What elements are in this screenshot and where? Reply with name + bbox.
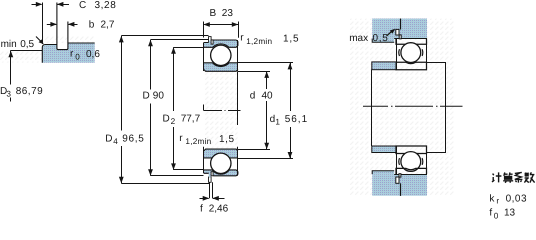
cage marks upper ball <box>399 49 423 56</box>
upper outer ring section (blue) <box>204 40 238 47</box>
detail outer-ring section (blue) <box>42 43 94 63</box>
svg-text:23: 23 <box>222 8 234 19</box>
shaft right section <box>427 63 446 153</box>
svg-text:f: f <box>200 204 203 215</box>
svg-text:C: C <box>79 0 86 11</box>
svg-text:b: b <box>89 20 95 31</box>
lower snap ring groove notch <box>211 172 213 176</box>
lower outer ring (right view) <box>396 168 427 174</box>
svg-text:1,2min: 1,2min <box>246 37 272 46</box>
dim d 40 <box>238 71 273 149</box>
label r 1,2min 1,5 upper <box>240 32 299 45</box>
svg-text:1,2min: 1,2min <box>185 137 211 146</box>
svg-text:1: 1 <box>275 117 280 126</box>
dim d1 56,1 <box>238 63 308 159</box>
lower inner ring (right view) <box>396 146 427 154</box>
svg-text:4: 4 <box>113 137 118 146</box>
detail housing hatch strip <box>42 36 94 44</box>
svg-text:86,79: 86,79 <box>16 86 44 97</box>
svg-text:56,1: 56,1 <box>285 114 308 125</box>
label r0 0,6 <box>70 49 100 62</box>
dim D 90 <box>143 40 209 176</box>
shaft shoulder bar upper <box>372 62 396 70</box>
svg-text:d: d <box>270 114 276 125</box>
dim B 23 <box>203 8 238 38</box>
detail section outline <box>42 43 94 63</box>
cage marks lower ball <box>399 158 423 165</box>
lower inner ring outline <box>204 149 238 158</box>
glyph suan <box>504 172 513 175</box>
svg-text:d: d <box>250 91 256 102</box>
svg-text:1,5: 1,5 <box>283 34 299 45</box>
mounting hatch background <box>350 19 455 196</box>
upper face lines <box>203 43 205 72</box>
housing joint line upper <box>400 19 402 30</box>
svg-text:1,5: 1,5 <box>219 134 235 145</box>
main centerline <box>204 110 241 112</box>
svg-text:40: 40 <box>262 91 274 102</box>
shaft shoulder bar lower <box>372 146 396 153</box>
glyph ji <box>492 174 494 182</box>
svg-text:0,6: 0,6 <box>86 49 100 60</box>
dim D3 86,79 <box>0 51 43 102</box>
svg-text:90: 90 <box>153 90 165 101</box>
svg-text:96,5: 96,5 <box>122 134 144 145</box>
lower outer ring section (blue) <box>204 170 238 176</box>
dim b 2,7 <box>47 20 115 31</box>
shaft hatch between sections <box>204 72 237 150</box>
label min 0,5 with leader <box>1 37 44 51</box>
svg-text:2,7: 2,7 <box>101 20 115 31</box>
calc factors title (hand-drawn CJK strokes) <box>492 172 535 182</box>
lower inner ring section (blue) <box>204 149 238 158</box>
upper ball <box>211 45 231 65</box>
housing top block <box>372 19 427 39</box>
lower ball (right view) <box>401 152 421 172</box>
dim D4 96,5 <box>105 36 209 184</box>
svg-text:77,7: 77,7 <box>181 114 201 125</box>
svg-text:0,5: 0,5 <box>20 39 34 50</box>
upper snap ring slot (right view) <box>396 29 399 35</box>
lower ball <box>211 153 231 173</box>
label r 1,2min 1,5 lower <box>179 133 234 146</box>
bearing face lines (right view) <box>396 39 398 70</box>
lower snap ring slot (right view) <box>396 177 399 183</box>
svg-text:D: D <box>143 90 150 101</box>
housing bottom block <box>372 174 427 196</box>
detail shaft hatch left of block <box>0 51 42 63</box>
housing bottom top edge <box>394 174 427 176</box>
housing bottom shoulder lip <box>372 171 394 174</box>
svg-text:f: f <box>489 207 492 218</box>
svg-text:3: 3 <box>6 89 11 98</box>
svg-text:0: 0 <box>75 53 80 62</box>
label max 0,5 with leader <box>349 29 395 44</box>
svg-text:2,46: 2,46 <box>209 204 229 215</box>
svg-text:D: D <box>163 114 170 125</box>
shaft left section <box>371 70 373 147</box>
upper snap ring groove notch <box>211 40 213 44</box>
svg-text:min: min <box>1 39 17 50</box>
upper snap ring <box>209 37 212 42</box>
svg-text:B: B <box>210 8 217 19</box>
housing joint line lower <box>400 183 402 196</box>
upper inner ring outline <box>204 63 238 72</box>
svg-text:13: 13 <box>504 207 516 218</box>
svg-text:max: max <box>349 33 368 44</box>
detail groove walls (extension lines up) <box>57 3 68 50</box>
face line segments in shaft gap <box>203 105 205 111</box>
svg-text:0,5: 0,5 <box>373 33 389 44</box>
factor f0 <box>489 207 515 220</box>
upper outer ring outline <box>204 40 238 47</box>
dim f 2,46 <box>200 182 229 214</box>
housing top shoulder lip <box>372 39 394 43</box>
lower snap ring <box>209 177 212 182</box>
svg-text:0: 0 <box>494 211 499 220</box>
svg-text:2: 2 <box>171 117 176 126</box>
svg-text:D: D <box>105 134 112 145</box>
svg-text:3,28: 3,28 <box>95 0 117 11</box>
svg-text:r: r <box>496 197 499 206</box>
upper ball (right view) <box>401 43 421 63</box>
upper inner ring (right view) <box>396 62 427 69</box>
dim D2 77,7 <box>163 47 205 170</box>
housing top bottom edge <box>394 38 427 40</box>
glyph xi <box>515 172 523 179</box>
dim C 3,28 <box>32 0 117 44</box>
factor kr <box>489 193 527 205</box>
svg-text:0,03: 0,03 <box>506 193 527 204</box>
lower outer ring outline <box>204 170 238 176</box>
upper inner ring section (blue) <box>204 63 238 72</box>
glyph shu <box>525 173 529 177</box>
right view centerline <box>363 105 463 107</box>
upper outer ring (right view) <box>396 39 427 45</box>
lower face lines <box>203 149 205 173</box>
